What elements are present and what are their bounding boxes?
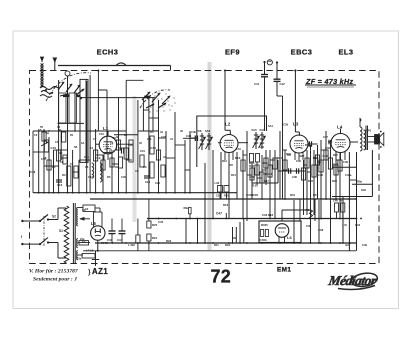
svg-text:C31: C31 [236,147,241,151]
svg-text:R27: R27 [333,153,338,157]
filter cap C44 [121,219,123,232]
tube L2 (EF9) [220,135,238,153]
cap on L3 output wire [308,141,310,146]
resistor left-16 [150,136,154,154]
wire column x166 [165,131,167,193]
resistor left-4 [62,132,66,142]
antenna terminal with arrester chain [41,57,43,62]
T2 trimmer 1 [255,132,257,149]
transformer secondary S5 [77,251,78,260]
tube row horizontal stubs [114,134,138,136]
resistor left-10 [110,158,114,167]
svg-text:4n6: 4n6 [345,243,350,247]
T2 lower components [250,154,254,163]
switch wipers section 1 [58,82,64,90]
wire column x44 [43,129,45,193]
svg-text:S4: S4 [82,240,86,244]
svg-text:C49: C49 [362,243,367,247]
resistor left-3 [57,150,61,161]
svg-text:C18: C18 [109,149,114,153]
tuning gang cap 1 trimmer [77,95,81,97]
resistor r3-1 [305,158,309,168]
svg-text:C39: C39 [343,160,348,164]
tuning gang cap 2 plates [144,96,150,99]
svg-text:R47: R47 [333,163,338,167]
wire from grid-cap down [67,76,69,90]
svg-text:}: } [88,267,92,276]
svg-text:R6: R6 [143,165,147,169]
resistor left-6 [67,166,71,186]
tap resistor 23a [79,241,89,245]
output transformer core [365,126,367,151]
right column wires [348,152,350,251]
left ground bus [33,192,237,194]
resistor left-0 [42,132,46,141]
resistor left-14 [129,140,133,162]
ground stub below L5 [95,251,97,266]
resistor r3-0 [301,168,305,180]
tube L4 (EL3) [331,134,350,153]
svg-text:R.25: R.25 [252,184,258,188]
speaker magnet [375,135,380,145]
svg-text:4 fil: 4 fil [342,223,347,227]
svg-text:58: 58 [74,145,77,149]
svg-text:57: 57 [70,162,74,166]
svg-text:R22: R22 [299,154,305,158]
cap left of L4 [328,141,332,143]
wire left edge cap [32,131,34,193]
wire column x67.5 [67,90,69,193]
svg-text:L4: L4 [337,125,343,130]
wire column x53.5 [53,150,55,193]
T2 trimmer 2 [261,132,263,149]
junction dots top bus [38,130,40,132]
transformer secondary S3 (HT) [77,208,78,226]
mains switch S2 [40,215,48,222]
wire x126 upper [125,80,127,133]
grey dial-cord band right [208,62,212,250]
resistor left-18 [156,150,160,160]
wire column x61.2 [60,131,62,160]
svg-text:5A3: 5A3 [259,145,264,149]
svg-text:C19: C19 [95,156,101,160]
bandswitch coil former A [59,93,67,123]
svg-text:EL3: EL3 [338,47,353,56]
tube L6 (EM1) [275,224,289,238]
tube L3 leads [294,152,296,160]
svg-text:S2: S2 [52,215,56,219]
svg-text:R11: R11 [214,243,219,247]
tuning gang wires [58,80,60,131]
svg-text:C30: C30 [283,123,289,127]
horizontal connector jogs [33,151,49,153]
resistor mid-7 [283,160,287,170]
caps on AVC line [288,168,290,174]
tube L4 leads [335,151,337,160]
logo underline swash [338,286,375,290]
svg-text:C7: C7 [93,137,97,141]
resistor mid-0 [241,160,245,171]
svg-text:72: 72 [211,266,232,286]
svg-text:C11: C11 [41,157,46,161]
svg-text:C16: C16 [57,183,63,187]
svg-text:R6a: R6a [357,180,362,184]
svg-text:C33 R18: C33 R18 [246,193,258,197]
svg-text:R15: R15 [249,161,255,165]
wire column x118.5 [118,128,120,193]
svg-text:C33 R18: C33 R18 [262,213,273,217]
bus y218.5 [147,218,357,220]
svg-text:R R2A: R R2A [259,238,267,242]
diode loop wires [252,182,278,184]
earth terminal arrow [54,58,56,71]
speaker wires [368,136,375,138]
heater winding taps [78,242,90,244]
top heater wire [58,65,171,67]
wire column x72.6 [72,150,74,193]
wire column x153 [152,98,154,131]
HT winding top lead + resistor 10 [78,207,83,209]
resistor r3-2 [312,165,316,177]
left AVC bus [33,130,126,132]
svg-text:34: 34 [90,146,94,150]
logo ellipse swash [351,271,379,288]
resistor mid-2 [255,165,259,175]
magic eye resistors [261,230,264,237]
tube L4 grid stub [340,129,342,134]
resistor 5718 [82,254,95,259]
resistor left-19 [161,165,165,177]
filter cap C43 [111,219,113,232]
svg-text:C38: C38 [318,173,323,177]
wire column x148.9 [148,98,150,193]
svg-text:C14: C14 [150,146,156,150]
svg-text:R17: R17 [264,179,269,183]
speaker cone [380,133,384,146]
S4 tap arrow [80,218,90,220]
svg-text:5/8: 5/8 [198,129,202,133]
svg-text:C36: C36 [292,175,297,179]
svg-text:R2: R2 [52,165,56,169]
svg-text:AZ1: AZ1 [92,267,108,276]
oscillator coil shield box [80,79,88,162]
wire column x79 [78,160,80,193]
svg-text:R14: R14 [231,173,236,177]
wire x186 [185,219,187,244]
svg-text:L33: L33 [215,181,220,185]
transformer primary S1 [64,206,69,263]
svg-text:C35: C35 [296,159,301,163]
volume potentiometer arrow [41,141,48,146]
svg-text:R4: R4 [150,130,154,134]
svg-text:R26: R26 [313,156,319,160]
svg-text:C43: C43 [107,238,113,242]
bandswitch coil former B [69,93,77,123]
speaker terminals [380,131,382,133]
svg-text:C37: C37 [323,135,328,139]
svg-text:71 72: 71 72 [101,241,108,245]
wire column x175 [174,112,176,193]
svg-text:C44: C44 [117,238,123,242]
scanned page edge borders [13,31,399,309]
transformer core [72,203,74,263]
svg-text:P1: P1 [306,208,310,212]
svg-text:5P1: 5P1 [367,129,372,133]
svg-text:Seulement pour : J: Seulement pour : J [33,277,77,283]
magic eye feed wires [246,199,248,221]
svg-text:C29: C29 [216,194,221,198]
svg-text:C15: C15 [50,146,56,150]
tube L5 (AZ1 rectifier) [91,226,105,240]
wire column x137.9 [137,100,139,193]
svg-text:R25: R25 [152,223,158,227]
oscillator section wire y123 [57,122,84,124]
svg-text:C32: C32 [250,175,255,179]
resistor left-13 [124,148,128,159]
resistor mid-4 [264,158,268,168]
cap right of L1 [121,148,123,153]
svg-text:V. Hor für : 2153787: V. Hor für : 2153787 [29,269,79,275]
svg-text:C42: C42 [280,82,286,86]
brace under ECH3 label [116,63,126,66]
chassis dashed border [30,71,380,264]
resistor R25 [148,199,150,221]
bottom mid verticals [197,219,199,244]
svg-text:33: 33 [57,125,60,129]
resistor left-2 [47,160,51,170]
more bus dots [158,218,160,220]
cap C48 into T1 [183,137,195,139]
T1 trimmer 1 [201,133,203,150]
svg-text:10: 10 [85,207,89,211]
wire y97.6 horizontal [81,97,155,99]
svg-text:5A5: 5A5 [252,128,258,132]
phono jack circle [267,60,272,65]
wire column x58.6 [58,131,60,193]
transformer secondary S4 [77,239,78,248]
svg-text:C13: C13 [84,155,89,159]
output transformer top lead [360,119,361,128]
svg-text:C5: C5 [55,140,59,144]
pickup wire with cap C41 [263,61,265,63]
resistor left-1 [44,140,48,152]
svg-text:L2: L2 [225,122,231,127]
coil right of osc box [100,163,102,182]
choke coil left [92,163,94,178]
svg-text:R20: R20 [286,152,291,156]
resistor R24 [147,234,151,241]
svg-text:C20: C20 [128,143,133,147]
svg-text:R10: R10 [224,194,229,198]
resistor r3-7 [334,165,338,175]
mid resistor cluster wires [242,150,244,219]
wire column x126.2 [125,133,127,193]
Mediator logo [326,271,378,289]
resistor r3-3 [315,155,319,165]
svg-text:R19: R19 [262,161,268,165]
svg-text:R22: R22 [305,143,310,147]
svg-text:L1: L1 [103,126,109,131]
resistor mid-1 [250,168,254,180]
L4 to output transformer wire [350,141,358,143]
svg-text:R16: R16 [223,203,229,207]
EM1 box [259,221,301,243]
mains terminal lower [21,243,23,245]
svg-text:C11: C11 [147,137,152,141]
svg-text:EBC3: EBC3 [291,47,313,56]
svg-text:S1: S1 [59,229,63,233]
svg-text:3A: 3A [81,141,84,145]
svg-text:ECH3: ECH3 [97,47,119,56]
svg-text:L6: L6 [287,235,292,240]
svg-text:R23: R23 [308,179,313,183]
svg-text:23a: 23a [77,258,82,261]
wire column x190 [189,131,191,193]
wire column x86.7 [86,96,88,193]
svg-text:C12: C12 [99,132,104,136]
svg-text:R2A: R2A [225,243,230,247]
band switch arc section 2 [140,90,170,108]
band switch arc section 1 [46,73,91,101]
resistor left-15 [140,155,144,167]
svg-text:C9: C9 [110,141,114,145]
svg-text:R1: R1 [70,133,74,137]
switch wipers section 2 [142,92,150,100]
resistor mid-5 [268,165,272,177]
junction dots buses [112,242,114,244]
tuning gang cap 1 plates [63,94,70,97]
underline of ZF note [305,84,356,86]
resistor r3-8 [338,160,342,171]
wire x90 tall [89,75,91,193]
small cap C10 [144,175,150,177]
svg-text:C48: C48 [186,134,192,138]
svg-text:30: 30 [59,151,63,155]
svg-text:R025: R025 [261,223,268,227]
svg-text:C46: C46 [306,224,311,228]
svg-text:R23: R23 [166,239,172,243]
svg-text:~: ~ [18,235,24,238]
resistor left-5 [63,155,67,164]
HT- bus y250.8 [83,250,356,252]
resistor r3-4 [319,160,323,172]
resistor left-11 [116,140,120,150]
switch coupling dots [147,98,148,99]
T1 trimmer 2 [208,133,210,150]
junction dots left bus [38,192,40,194]
svg-text:C21: C21 [140,149,145,153]
svg-text:C48: C48 [30,170,36,174]
resistor mid-6 [273,158,277,169]
svg-text:C23: C23 [161,135,166,139]
grid coupling wire L2-L3 [197,116,267,167]
svg-text:C2: C2 [34,133,38,137]
wire x118 upper [118,98,120,128]
svg-text:C17: C17 [88,175,93,179]
svg-text:L7 18: L7 18 [86,249,94,253]
wire y80.3 horizontal [126,79,143,81]
svg-text:C40: C40 [322,154,328,158]
wire x98 from border [97,71,99,132]
small cap C16 [56,179,62,181]
svg-text:R21: R21 [277,156,283,160]
wire column x95.6 [95,129,97,193]
svg-text:x10 418: x10 418 [263,172,273,176]
svg-text:EF9: EF9 [225,47,240,56]
resistor left-9 [101,160,105,170]
tube L2 leads [224,152,226,161]
svg-text:C22: C22 [121,175,126,179]
svg-text:C41: C41 [254,82,260,86]
resistor left-8 [94,150,98,161]
resistor left-12 [118,157,122,168]
resistor r3-5 [324,150,328,160]
wire drop to border at x171 [170,66,172,71]
svg-text:C10: C10 [145,180,151,184]
svg-text:R6: R6 [313,193,317,197]
drop wires to buses [204,163,206,243]
right column dots [349,242,351,244]
wire column x158.5 [158,100,160,193]
svg-text:R24: R24 [152,236,158,240]
ground bus y243 [95,242,356,244]
wire column x38.7 [38,131,40,193]
pickup wire with cap C42 [276,61,278,63]
wire column x112 [111,154,113,193]
svg-text:EM1: EM1 [277,267,291,274]
tube L1 leads [107,131,109,136]
svg-text:C24: C24 [155,181,160,185]
svg-text:R31: R31 [290,193,296,197]
svg-text:5A4: 5A4 [268,124,273,128]
resistor r3-6 [328,158,332,169]
svg-text:C47: C47 [216,212,222,216]
resistor mid-3 [260,172,264,183]
grey dial-cord band left [133,96,137,222]
wire column x103 [102,155,104,193]
svg-text:R12: R12 [222,159,227,163]
wire x107 upper [106,90,108,153]
output transformer primary [360,127,362,151]
svg-text:R16: R16 [235,156,241,160]
tube L3 grid cap wire [294,71,296,133]
tube L1 (ECH3) [99,136,117,154]
svg-text:55: 55 [40,125,43,129]
wire column x49 [48,137,50,193]
output transformer secondary [364,130,366,150]
svg-text:C42a: C42a [345,173,352,177]
svg-text:R28: R28 [332,179,337,183]
svg-text:C6: C6 [85,165,89,169]
right column components [335,203,339,212]
resistor left-17 [150,162,154,178]
svg-text:5A8: 5A8 [205,129,211,133]
wire column x185 [184,140,186,193]
svg-text:C34: C34 [355,223,361,227]
tube L6 leads [278,237,280,243]
rectifier plate wires [93,212,95,227]
mains terminal upper [21,220,23,222]
HT bus y199 [90,198,356,200]
svg-text:L 232: L 232 [128,243,135,247]
right column horizontals [332,166,357,168]
grid-cap circle on border [65,71,70,76]
tube L2 grid cap wire from top border [224,71,226,131]
antenna coil cluster [40,87,58,98]
svg-text:C45: C45 [158,220,164,224]
switch to primary wires [48,219,58,221]
tube L5 cathode lead [97,240,99,251]
